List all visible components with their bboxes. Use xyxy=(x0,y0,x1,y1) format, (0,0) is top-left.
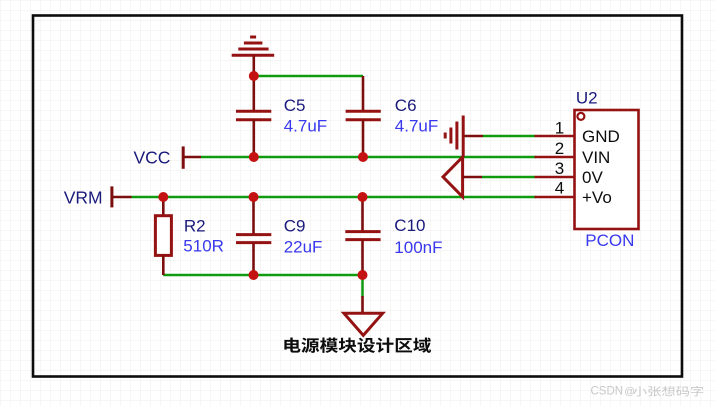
wire bottom rail xyxy=(163,274,362,277)
watermark 小张想码字 xyxy=(633,386,703,397)
capacitor C9 xyxy=(236,197,271,275)
svg-text:100nF: 100nF xyxy=(394,238,442,257)
power ground symbol bottom xyxy=(344,296,383,335)
junction VRM-C10 xyxy=(358,192,368,202)
power port triangle at U2 pin 3 xyxy=(443,157,463,197)
U2 pin 3 wire xyxy=(463,176,575,179)
svg-text:4.7uF: 4.7uF xyxy=(395,117,438,136)
resistor R2 xyxy=(155,197,171,275)
svg-text:PCON: PCON xyxy=(585,231,634,250)
junction VRM-C9 xyxy=(249,192,259,202)
svg-text:C5: C5 xyxy=(284,96,306,115)
wire VRM net horizontal xyxy=(132,196,537,199)
text 电源模块设计区域 xyxy=(284,337,431,352)
svg-text:VIN: VIN xyxy=(582,148,610,167)
port VRM tick xyxy=(112,186,132,207)
svg-text:510R: 510R xyxy=(183,237,224,256)
ground earth symbol top xyxy=(232,37,275,76)
U2 pin 4 wire xyxy=(535,196,575,199)
IC U2 body xyxy=(575,110,639,229)
svg-text:4.7uF: 4.7uF xyxy=(284,117,327,136)
ground earth symbol at U2 pin 1 xyxy=(445,116,463,158)
svg-text:4: 4 xyxy=(555,179,564,198)
svg-text:2: 2 xyxy=(555,139,564,158)
svg-text:1: 1 xyxy=(555,118,564,137)
svg-text:3: 3 xyxy=(555,159,564,178)
U2 pin 2 wire xyxy=(535,156,575,159)
junction rail-C10 xyxy=(358,270,368,280)
svg-text:U2: U2 xyxy=(576,89,598,108)
capacitor C6 xyxy=(346,76,381,157)
junction top gnd / C5 xyxy=(249,71,259,81)
junction VCC-C6 xyxy=(358,152,368,162)
svg-text:C6: C6 xyxy=(395,96,417,115)
svg-text:+Vo: +Vo xyxy=(582,188,612,207)
svg-text:C10: C10 xyxy=(394,216,425,235)
svg-text:@: @ xyxy=(624,386,635,398)
wire VCC net horizontal xyxy=(201,156,536,159)
junction VRM-R2 xyxy=(158,192,168,202)
U2 pin 1 wire xyxy=(463,135,574,138)
wire top gnd to C6 xyxy=(254,75,363,78)
svg-text:VRM: VRM xyxy=(64,187,103,207)
junction rail-C9 xyxy=(249,270,259,280)
capacitor C5 xyxy=(236,76,271,157)
U2 pin1 marker circle xyxy=(577,113,584,120)
svg-text:GND: GND xyxy=(582,127,620,146)
svg-text:R2: R2 xyxy=(184,217,206,236)
svg-text:VCC: VCC xyxy=(134,147,171,167)
wire C10 bottom to power gnd xyxy=(361,275,364,297)
junction VCC-C5 xyxy=(249,152,259,162)
port VCC tick xyxy=(183,146,201,168)
svg-text:C9: C9 xyxy=(284,217,306,236)
svg-text:0V: 0V xyxy=(582,168,603,187)
svg-text:22uF: 22uF xyxy=(284,238,323,257)
svg-text:CSDN: CSDN xyxy=(591,386,624,398)
capacitor C10 xyxy=(345,197,380,275)
